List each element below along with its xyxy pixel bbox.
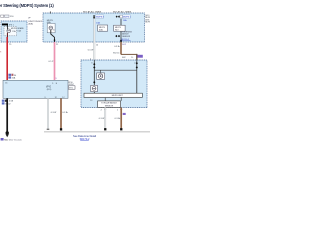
- svg-text:RLY: RLY: [115, 30, 119, 32]
- svg-text:E02: E02: [122, 44, 126, 46]
- svg-text:0.3 W: 0.3 W: [51, 112, 56, 114]
- svg-text:E02 14: E02 14: [113, 53, 119, 55]
- svg-text:TORQUE ANGLE: TORQUE ANGLE: [101, 102, 117, 105]
- wire white F2 down to MDPS box: [93, 19, 95, 60]
- svg-text:MDPS 3: MDPS 3: [96, 17, 105, 19]
- separator line: [44, 131, 150, 133]
- junction diamonds at sensor wire exits: [104, 108, 106, 110]
- svg-text:SENSOR: SENSOR: [105, 105, 114, 107]
- svg-text:0.5 Br: 0.5 Br: [114, 45, 120, 48]
- terminal square: [60, 128, 62, 130]
- terminal square: [104, 128, 106, 130]
- svg-text:F10: F10: [10, 16, 14, 18]
- left bottom labels: [2, 100, 5, 102]
- wire F3 to relay box B: [120, 19, 122, 26]
- svg-text:HOT AT ALL TIMES: HOT AT ALL TIMES: [83, 10, 102, 13]
- svg-text:2: 2: [101, 109, 103, 111]
- svg-text:0.3 Br: 0.3 Br: [115, 117, 121, 120]
- svg-text:SPARE: SPARE: [17, 27, 24, 30]
- svg-text:(SJB): (SJB): [28, 23, 33, 25]
- I/P-E joint box: [3, 80, 68, 98]
- wire bus to fuse: [6, 25, 8, 29]
- engine room junction block (top right dashed box): [43, 13, 145, 42]
- fuse sub-box in left block: [4, 26, 17, 35]
- purple connector chip: [123, 113, 126, 115]
- bus entry tick above breaker: [49, 11, 51, 13]
- svg-text:GM02: GM02: [5, 103, 11, 105]
- svg-text:MDPS): MDPS): [145, 22, 150, 24]
- diamonds wire1: [93, 63, 95, 66]
- fuse box inside MDPS: [91, 85, 98, 91]
- svg-text:13: 13: [90, 100, 92, 102]
- svg-text:er Steering (MDPS) System (1): er Steering (MDPS) System (1): [0, 3, 54, 8]
- diamonds wire2: [136, 62, 138, 65]
- fuse F1 circle: [7, 29, 11, 33]
- svg-text:HOT AT ALL TIMES: HOT AT ALL TIMES: [113, 10, 132, 13]
- svg-text:9: 9: [56, 78, 58, 80]
- svg-text:M02 (See Ground): M02 (See Ground): [4, 138, 22, 141]
- terminal T: [47, 128, 50, 130]
- fuse circle: [92, 87, 96, 91]
- torque angle sensor box: [98, 101, 121, 108]
- svg-text:0.5 W: 0.5 W: [88, 50, 93, 52]
- ECU bar: [84, 93, 142, 97]
- circuit breaker circle: [49, 26, 53, 30]
- svg-text:16A: 16A: [12, 77, 16, 80]
- terminal square: [120, 128, 122, 130]
- wire tan from I/P-E down: [60, 98, 62, 128]
- svg-text:10A: 10A: [123, 19, 127, 22]
- stubs to torque sensor: [104, 98, 106, 101]
- svg-text:30: 30: [14, 75, 17, 77]
- svg-text:MDPS: MDPS: [11, 28, 17, 30]
- fuse F2 MDPS: [93, 15, 95, 16]
- svg-text:(E91): (E91): [47, 89, 52, 91]
- wire tan from relay B down: [120, 42, 122, 54]
- wire 2 inside: [136, 60, 138, 93]
- smart junction block (left dashed box): [1, 21, 27, 42]
- fuse F3: [116, 16, 118, 18]
- hot bus bar: [2, 24, 8, 26]
- svg-text:0.5B: 0.5B: [9, 101, 14, 103]
- wire tan jog: [121, 53, 137, 55]
- relay box A: [98, 25, 108, 31]
- motor box: [97, 73, 105, 79]
- ground symbol GM02: [6, 131, 9, 134]
- junction diamond: [120, 39, 122, 42]
- svg-text:1L: 1L: [131, 57, 133, 59]
- wire white from torque sensor: [104, 108, 106, 129]
- motor circle: [98, 74, 102, 78]
- svg-text:10A: 10A: [96, 21, 100, 24]
- wire white from I/P-E down: [47, 98, 49, 128]
- svg-text:12: 12: [55, 97, 57, 99]
- label chips above left box: [1, 15, 4, 17]
- svg-text:0.5 P: 0.5 P: [49, 61, 54, 63]
- relay box B: [114, 25, 126, 31]
- wire relay B down: [120, 31, 122, 42]
- svg-text:I/P: I/P: [28, 18, 31, 20]
- junction diamond: [54, 39, 56, 42]
- svg-text:75: 75: [9, 44, 12, 46]
- svg-text:R: R: [0, 52, 2, 54]
- wire black ground: [6, 98, 8, 131]
- svg-text:MDPS 1: MDPS 1: [123, 17, 132, 19]
- wire pink from breaker to I/P-E: [54, 42, 56, 80]
- wire label 0.5R chips: [8, 74, 11, 76]
- circuit breaker sub-box: [47, 23, 55, 32]
- svg-text:21: 21: [56, 44, 59, 46]
- svg-text:MDPS UNIT: MDPS UNIT: [112, 95, 124, 97]
- purple chip: [137, 55, 142, 58]
- svg-text:0.3 Br: 0.3 Br: [62, 111, 68, 114]
- svg-text:3: 3: [44, 97, 45, 99]
- wire fuse to box edge: [6, 33, 8, 37]
- wire red from SJB to I/P-E: [6, 37, 8, 80]
- svg-text:0.3 W: 0.3 W: [99, 118, 104, 120]
- stub to motor: [100, 70, 102, 73]
- wire 1 inside: [93, 60, 95, 93]
- svg-text:SENSOR: SENSOR: [122, 36, 131, 38]
- wire tan from torque sensor: [120, 108, 122, 129]
- rail: [94, 69, 137, 71]
- svg-text:15: 15: [53, 29, 55, 31]
- svg-text:1: 1: [117, 109, 119, 111]
- svg-text:14: 14: [96, 44, 98, 46]
- svg-text:SD110-1: SD110-1: [121, 39, 130, 41]
- MDPS unit dashed box: [81, 60, 147, 108]
- wire breaker to edge: [51, 30, 55, 42]
- connector arrows: [115, 35, 117, 37]
- svg-text:60A: 60A: [47, 21, 51, 24]
- svg-text:E02: E02: [122, 57, 125, 59]
